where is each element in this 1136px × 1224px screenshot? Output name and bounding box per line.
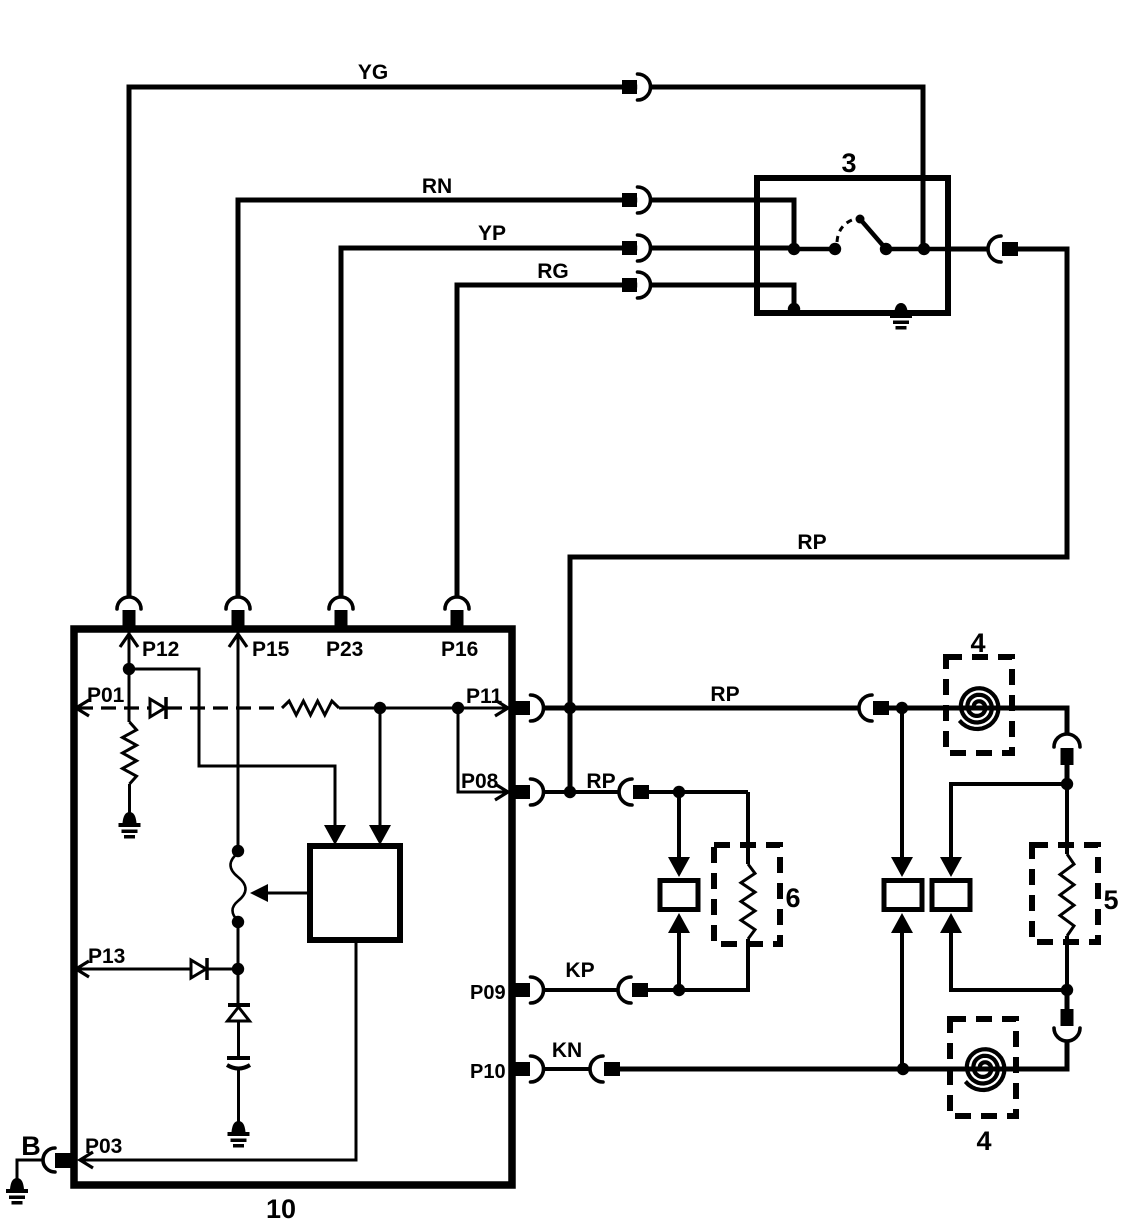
switch blade (open, to pivot) — [856, 215, 865, 224]
wire from switch box 3 to connector — [948, 247, 988, 252]
svg-text:P09: P09 — [470, 982, 506, 1004]
svg-text:RP: RP — [586, 770, 615, 793]
ground at switch box 3 — [894, 303, 908, 314]
wire block output to P03 — [80, 940, 356, 1160]
resistor in P01 branch — [123, 722, 137, 784]
wire YG from switch box to ECU pin P12 — [129, 87, 923, 597]
wire RN to ECU pin P15 — [238, 200, 794, 597]
wire P12 to logic block (upper route) — [129, 669, 335, 826]
switch box 3 outline — [757, 178, 948, 313]
pin P03 connector — [43, 1148, 55, 1172]
zener diode triangle — [228, 1007, 250, 1021]
capacitor top plate — [227, 1056, 250, 1060]
ignition coil 4 (upper) winding — [959, 688, 998, 729]
wire B to ground — [17, 1160, 43, 1180]
svg-text:P11: P11 — [466, 685, 503, 708]
svg-text:10: 10 — [266, 1194, 296, 1224]
svg-text:4: 4 — [970, 628, 985, 658]
resistor 6 dashed box — [714, 845, 780, 944]
node P12 branch — [123, 663, 135, 675]
pin P11 connector — [515, 701, 530, 715]
wire node down to lower connector — [1065, 990, 1070, 1010]
node above oscillator squiggle — [232, 845, 244, 857]
pin P01 arrow — [76, 700, 89, 716]
wire RP from switch box 3 down and across — [570, 249, 1067, 792]
switch output terminal node — [918, 243, 930, 255]
wire RP from P11 to coil connector — [544, 706, 859, 711]
pin P03 arrow — [80, 1152, 93, 1168]
arrow from block to oscillator — [266, 892, 310, 895]
wire suppressor to KP node — [677, 933, 681, 990]
svg-text:P10: P10 — [470, 1061, 506, 1083]
svg-text:RP: RP — [710, 683, 739, 706]
pin P08 connector — [515, 785, 530, 799]
wire YP to ECU pin P23 — [341, 248, 794, 597]
node below oscillator squiggle — [232, 916, 244, 928]
svg-text:RG: RG — [537, 260, 569, 283]
oscillator squiggle on P15 line — [231, 853, 246, 921]
svg-text:P03: P03 — [85, 1135, 122, 1158]
spark plug A body — [884, 881, 922, 910]
svg-text:P16: P16 — [441, 638, 478, 661]
resistor 5 element — [1060, 854, 1074, 936]
wire into suppressor gap — [677, 792, 681, 858]
svg-text:RP: RP — [797, 531, 826, 554]
ECU box 10 outline — [74, 629, 512, 1185]
node RP at P11 row — [564, 702, 576, 714]
node noise suppressor top — [673, 786, 685, 798]
wire bus into resistor 5 — [1065, 784, 1069, 854]
wire plug A bottom to KN node — [900, 933, 904, 1069]
wire down to resistor 6 — [746, 792, 750, 864]
svg-text:YP: YP — [478, 222, 506, 245]
wire KP connector to node — [648, 988, 679, 992]
wire P12 node down to resistor — [128, 669, 131, 722]
wire RG to ECU pin P16 — [457, 285, 794, 597]
arrow from plug B bottom — [940, 913, 962, 933]
wire plug A top from coil node — [900, 708, 904, 858]
wire resistor to pin P11 — [339, 707, 508, 710]
connector on wire YG — [637, 81, 650, 93]
wire P12 internal — [128, 632, 131, 669]
wire zener to capacitor — [237, 1021, 240, 1057]
svg-text:P12: P12 — [142, 638, 179, 661]
diode D1 on P01 line — [150, 699, 165, 717]
svg-text:KP: KP — [565, 959, 594, 982]
wire P13 to diode — [78, 968, 191, 971]
node P11/P08 branch — [452, 702, 464, 714]
wire P08 internal — [458, 708, 508, 792]
diode D2 on P13 line — [191, 960, 206, 978]
wire node to plug B top — [951, 784, 1067, 858]
pin P15 of ECU (connector) — [226, 597, 250, 609]
switch output contact node — [880, 243, 892, 255]
spark plug B body — [932, 881, 970, 910]
pin P23 of ECU (connector) — [329, 597, 353, 609]
wire connector to ignition coil 4 (lower) — [903, 1040, 1067, 1069]
wire P08 to connector — [544, 790, 619, 794]
wire P09 to KP connector — [544, 988, 618, 992]
svg-text:P01: P01 — [87, 684, 125, 707]
resistor 6 element — [741, 864, 755, 939]
wire P15 internal — [237, 632, 240, 853]
resistor on P01-P11 line — [282, 701, 339, 715]
svg-text:KN: KN — [552, 1039, 582, 1062]
node right bus upper — [1061, 778, 1073, 790]
dashed wire P01 to diode — [78, 706, 150, 709]
connector above lower coil (vertical) — [1061, 1009, 1074, 1026]
arrow into block from P11 node — [369, 825, 391, 845]
svg-text:5: 5 — [1103, 885, 1118, 915]
svg-text:YG: YG — [358, 61, 388, 84]
switch blade travel (dashed arc) — [837, 220, 852, 242]
svg-text:3: 3 — [841, 148, 856, 178]
node RP at P08 row — [564, 786, 576, 798]
wire P10 to KN connector — [544, 1067, 590, 1071]
wire KN to lower coil — [620, 1067, 906, 1072]
svg-text:P23: P23 — [326, 638, 363, 661]
pin P16 of ECU (connector) — [445, 597, 469, 609]
connector on KP wire — [618, 977, 631, 1003]
zener diode cathode bar — [228, 1003, 250, 1007]
wire connector to node — [1065, 765, 1070, 784]
node coil feed branch — [896, 702, 908, 714]
wire capacitor to ground — [237, 1069, 240, 1122]
noise suppressor body — [660, 881, 698, 910]
wire squiggle to P13 node — [237, 921, 240, 969]
wire diode to P13 node — [208, 968, 238, 971]
node RG at box 3 bottom — [788, 303, 800, 315]
node KP — [673, 984, 685, 996]
pin P13 arrow — [76, 961, 89, 977]
svg-text:6: 6 — [785, 883, 800, 913]
resistor 5 dashed box — [1032, 845, 1098, 942]
arrow into block from P12 branch — [324, 825, 346, 845]
connector on wire RN — [637, 194, 650, 206]
logic block in ECU — [310, 846, 400, 940]
connector on P11 RP wire — [859, 695, 872, 721]
wire switch common to blade contact — [794, 247, 835, 252]
wire P13 node to zener — [237, 969, 240, 1003]
svg-text:P08: P08 — [461, 770, 499, 793]
svg-text:4: 4 — [976, 1126, 991, 1156]
ignition coil 4 (lower) winding — [965, 1049, 1004, 1090]
connector on wire RG — [637, 279, 650, 291]
node P13 junction — [232, 963, 244, 975]
wire resistor 6 to KP row — [679, 939, 748, 990]
connector below upper coil (vertical) — [1054, 734, 1080, 747]
connector at switch box 3 output — [988, 236, 1001, 262]
capacitor bottom plate (curved) — [227, 1065, 250, 1069]
node right bus lower — [1061, 984, 1073, 996]
switch blade contact node — [829, 243, 841, 255]
pin P09 connector — [515, 983, 530, 997]
node to lower block arrow — [374, 702, 386, 714]
svg-text:P15: P15 — [252, 638, 290, 661]
ignition coil 4 (upper) dashed box — [946, 657, 1012, 753]
switch terminal node — [788, 243, 800, 255]
connector on KN wire — [590, 1056, 603, 1082]
svg-text:RN: RN — [422, 175, 452, 198]
connector on wire YP — [637, 242, 650, 254]
pin P08 arrow — [495, 784, 508, 800]
ignition coil 4 (lower) dashed box — [950, 1019, 1016, 1116]
svg-text:B: B — [21, 1131, 41, 1161]
pin P12 of ECU (connector) — [117, 597, 141, 609]
wire resistor to ground — [128, 784, 131, 813]
dashed wire diode to resistor — [167, 706, 282, 709]
wire node down to block — [379, 708, 382, 826]
wire switch output — [886, 247, 948, 252]
ground inside ECU (capacitor) — [232, 1121, 246, 1132]
svg-text:P13: P13 — [88, 945, 125, 968]
arrow into plug B — [940, 857, 962, 877]
arrow into suppressor — [668, 857, 690, 877]
pin P10 connector — [515, 1062, 530, 1076]
node KN at plug A — [897, 1063, 909, 1075]
arrow from suppressor bottom — [668, 913, 690, 933]
wire connector to ignition coil 4 (upper) — [889, 708, 1067, 733]
connector on P08 wire — [619, 779, 632, 805]
arrow into plug A — [891, 857, 913, 877]
wire resistor 5 to lower node — [1065, 936, 1069, 990]
arrow from plug A bottom — [891, 913, 913, 933]
wire plug B bottom to right bus — [951, 933, 1067, 990]
ground at pin B — [10, 1178, 24, 1189]
pin P11 arrow — [495, 700, 508, 716]
ground inside ECU (P01 branch) — [123, 812, 137, 823]
wire connector to node — [649, 790, 748, 794]
